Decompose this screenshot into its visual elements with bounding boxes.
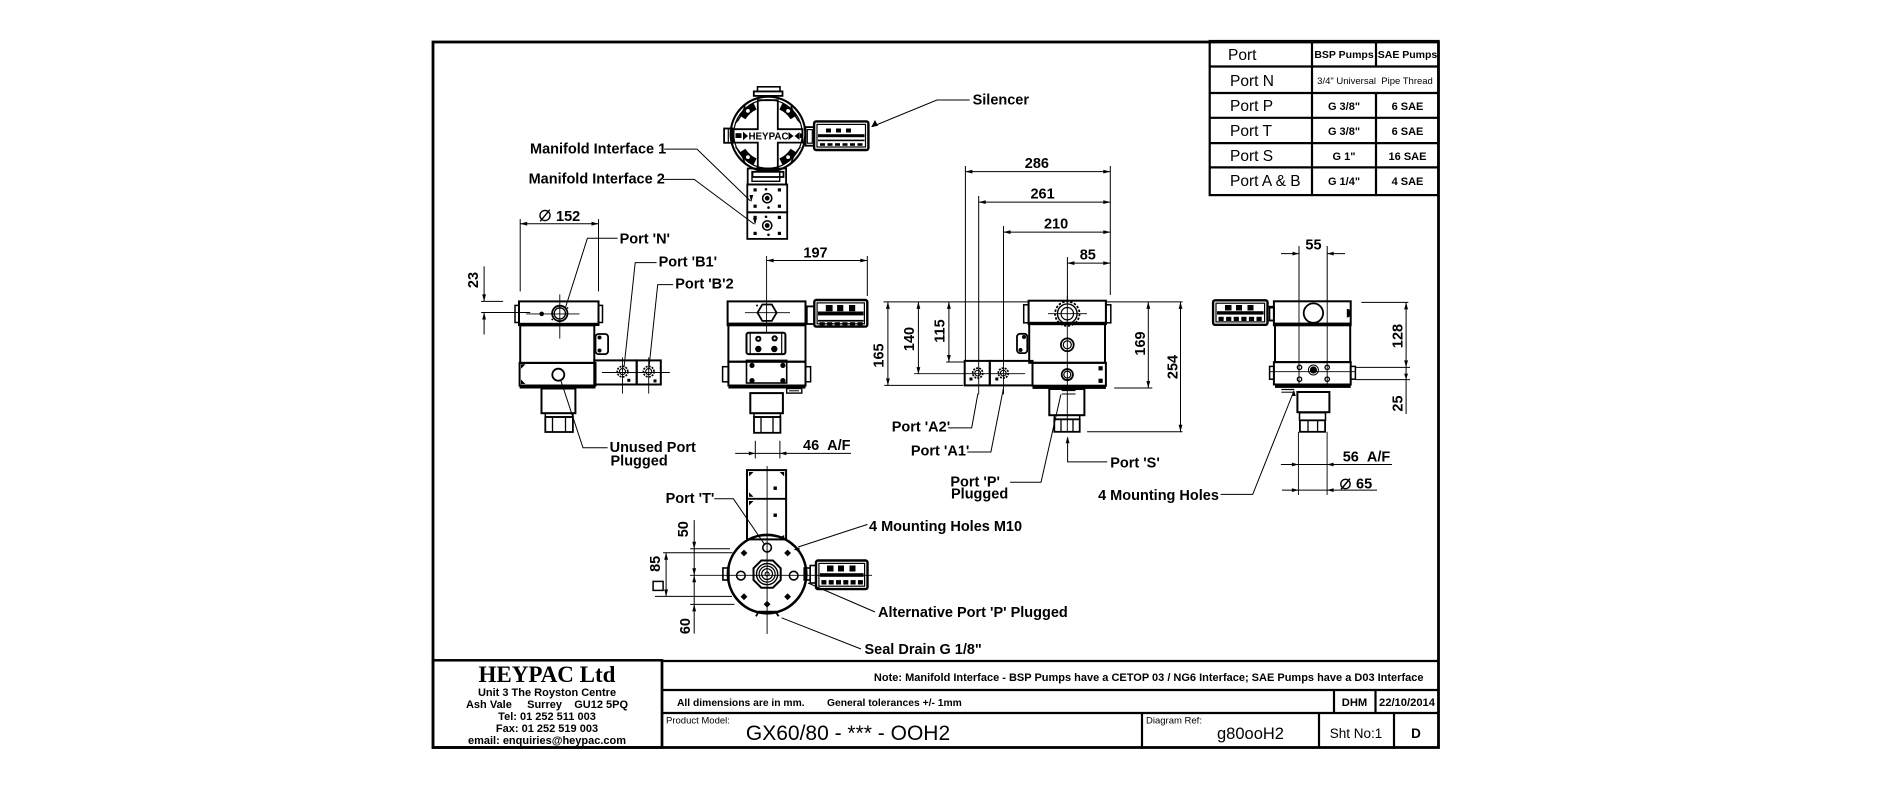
view3 mounting face inner rect with bolts <box>747 360 787 383</box>
svg-text:Plugged: Plugged <box>951 487 1008 503</box>
manifold interface plate 2 <box>747 212 787 239</box>
svg-text:D: D <box>1411 726 1421 741</box>
svg-text:169: 169 <box>1133 331 1149 355</box>
svg-text:6 SAE: 6 SAE <box>1392 101 1424 113</box>
view6 motor circle outline <box>728 535 806 613</box>
svg-text:4 SAE: 4 SAE <box>1392 176 1424 188</box>
svg-text:Port 'A1': Port 'A1' <box>911 444 969 460</box>
label Unused Port Plugged <box>561 380 696 470</box>
view3 bottom pump block <box>723 362 811 389</box>
svg-text:210: 210 <box>1044 217 1068 233</box>
view2 side latch bracket <box>596 334 609 354</box>
svg-text:56 A/F: 56 A/F <box>1343 450 1391 466</box>
drawing sheet border frame <box>433 42 1439 748</box>
view4 port P plug tab dashed <box>1062 391 1076 395</box>
label Port A1 <box>911 389 1003 460</box>
svg-text:DHM: DHM <box>1342 697 1367 709</box>
svg-text:115: 115 <box>933 319 949 342</box>
view4 port A2 block <box>965 361 990 386</box>
dimension 165 <box>872 302 964 386</box>
svg-text:152: 152 <box>556 209 580 225</box>
svg-text:85: 85 <box>648 556 664 572</box>
view3 silencer body <box>814 300 867 327</box>
svg-text:65: 65 <box>1356 477 1372 493</box>
svg-text:3/4" Universal Pipe Thread: 3/4" Universal Pipe Thread <box>1317 76 1433 87</box>
svg-text:22/10/2014: 22/10/2014 <box>1379 697 1436 709</box>
svg-text:Manifold Interface 1: Manifold Interface 1 <box>530 142 666 158</box>
svg-text:254: 254 <box>1165 355 1181 379</box>
svg-text:261: 261 <box>1030 187 1054 203</box>
svg-text:Unit 3 The Royston Centre: Unit 3 The Royston Centre <box>478 687 616 699</box>
view6 silencer side <box>810 561 867 590</box>
svg-text:Port 'B1': Port 'B1' <box>659 255 717 271</box>
svg-text:All dimensions are in mm.: All dimensions are in mm. <box>677 698 805 709</box>
view4 port S plug body <box>1049 389 1084 415</box>
svg-text:Port 'N': Port 'N' <box>620 232 670 248</box>
port A1 fitting <box>914 361 1025 395</box>
view3 main body block <box>728 325 805 362</box>
view6 center port S octagon rings <box>754 561 781 588</box>
svg-text:Port 'B'2: Port 'B'2 <box>675 277 733 293</box>
view4 body plug circle <box>1061 338 1074 351</box>
svg-text:HEYPAC Ltd: HEYPAC Ltd <box>479 662 616 687</box>
svg-text:Port P: Port P <box>1230 98 1273 115</box>
svg-text:g80ooH2: g80ooH2 <box>1217 725 1284 743</box>
dimension 261 <box>979 187 1111 361</box>
view6 left port circle <box>737 571 746 580</box>
top view silencer body <box>814 121 868 150</box>
label 4 Mounting Holes M10 <box>794 519 1023 551</box>
view4 plug neck <box>1054 415 1079 419</box>
view5 main body block <box>1275 325 1350 362</box>
dimension 197 <box>767 245 868 296</box>
extension line top of pump left group <box>883 301 1028 303</box>
svg-text:Port 'T': Port 'T' <box>666 491 715 507</box>
dimension 56 A/F <box>1281 450 1392 467</box>
view5 fill plug circle <box>1304 303 1323 322</box>
dimension 210 <box>1004 217 1111 361</box>
svg-text:HEYPAC: HEYPAC <box>748 132 788 143</box>
top view motor housing outer circle <box>731 97 806 172</box>
svg-text:email: enquiries@heypac.com: email: enquiries@heypac.com <box>468 735 626 747</box>
svg-text:6 SAE: 6 SAE <box>1392 126 1424 138</box>
label Manifold Interface 2 <box>529 172 757 226</box>
dimension 85 square bottom view <box>648 553 733 597</box>
svg-text:Diagram Ref:: Diagram Ref: <box>1146 716 1202 727</box>
view5 port N side mark <box>1347 309 1351 318</box>
view6 port T circle <box>763 543 772 552</box>
view5 flange bolt holes <box>1270 365 1355 381</box>
svg-text:GX60/80 - *** - OOH2: GX60/80 - *** - OOH2 <box>746 722 950 745</box>
view4 bottom pump block <box>1033 363 1106 389</box>
view6 manifold neck rectangle <box>747 470 786 539</box>
svg-text:16 SAE: 16 SAE <box>1389 151 1427 163</box>
port B2 fitting <box>602 357 670 393</box>
svg-text:55: 55 <box>1305 238 1321 254</box>
dimension 85 rear view <box>1067 248 1110 300</box>
view4 plug hex <box>1054 389 1079 432</box>
dimension 60 bottom view <box>678 568 735 634</box>
svg-text:Sht No:1: Sht No:1 <box>1330 726 1383 741</box>
view2 plug hex <box>545 417 573 432</box>
dimension 50 bottom view <box>676 520 730 634</box>
view6 alternative port P circle <box>789 571 798 580</box>
view6 seal drain marker <box>756 601 779 617</box>
top view center band with HEYPAC branding <box>736 132 804 143</box>
table row Port S <box>1230 148 1426 165</box>
view2 port B1 block <box>594 360 636 384</box>
dimension diameter 65 <box>1282 477 1377 493</box>
view4 main body block <box>1029 324 1105 363</box>
top view silencer connector nipple <box>806 127 815 146</box>
table row Port A and B <box>1230 173 1423 190</box>
svg-text:4 Mounting Holes: 4 Mounting Holes <box>1098 488 1219 504</box>
title block tolerances row <box>662 690 1438 713</box>
label 4 Mounting Holes right view <box>1098 390 1296 504</box>
view5 plug hex <box>1300 420 1325 432</box>
view5 silencer connector <box>1268 307 1274 321</box>
manifold interface plate 1 <box>747 185 787 213</box>
view3 manifold interface face plate <box>747 333 786 354</box>
view5 port S plug body <box>1297 392 1329 412</box>
label Silencer <box>871 93 1029 128</box>
svg-text:Port N: Port N <box>1230 73 1274 90</box>
dimension 286 <box>965 156 1110 361</box>
view4 port S circle <box>1062 369 1073 380</box>
port A2 fitting <box>970 368 983 380</box>
view5 mounting flange block <box>1270 362 1356 388</box>
view6 four mounting holes <box>741 550 791 601</box>
svg-text:25: 25 <box>1390 395 1406 411</box>
svg-text:Fax: 01 252 519 003: Fax: 01 252 519 003 <box>496 723 598 735</box>
svg-text:Seal Drain G 1/8": Seal Drain G 1/8" <box>865 642 982 658</box>
view5 top motor block <box>1270 301 1351 325</box>
table row Port N <box>1230 73 1433 90</box>
port B1 fitting <box>617 357 630 393</box>
view4 port N knurled nut <box>1048 296 1087 335</box>
top view top mounting tab <box>754 87 783 96</box>
view4 top motor block <box>1024 301 1111 325</box>
label Port N <box>566 232 671 308</box>
svg-text:Port T: Port T <box>1230 123 1272 140</box>
svg-text:165: 165 <box>872 343 888 367</box>
view2 port N boss <box>526 294 579 338</box>
dimension 169 <box>1106 302 1183 388</box>
top view corner casting wings with bolt holes <box>739 103 796 165</box>
label Port S <box>1066 436 1160 471</box>
svg-text:85: 85 <box>1080 248 1096 264</box>
svg-text:Manifold Interface 2: Manifold Interface 2 <box>529 172 665 188</box>
dimension 115 <box>933 302 965 362</box>
label Manifold Interface 1 <box>530 142 753 203</box>
dimension 23 <box>466 266 530 334</box>
svg-text:Port 'A2': Port 'A2' <box>892 420 950 436</box>
svg-text:Port 'S': Port 'S' <box>1110 456 1160 472</box>
dimension 140 <box>902 302 920 374</box>
view3 port S plug body <box>750 393 783 413</box>
view3 fill plug hex <box>745 256 790 334</box>
svg-text:Product Model:: Product Model: <box>666 716 730 727</box>
top view bottom tab <box>753 172 784 177</box>
svg-text:60: 60 <box>678 618 694 634</box>
view5 vertical centerlines <box>1298 300 1327 495</box>
svg-text:Plugged: Plugged <box>611 454 668 470</box>
label Port B1 <box>624 255 717 368</box>
svg-text:G 3/8": G 3/8" <box>1328 101 1360 113</box>
view2 main body block <box>520 325 594 363</box>
svg-text:140: 140 <box>902 327 918 351</box>
view6 right tab <box>804 568 810 580</box>
view5 plug neck <box>1300 413 1326 421</box>
svg-text:General tolerances +/- 1mm: General tolerances +/- 1mm <box>827 698 962 709</box>
svg-text:286: 286 <box>1025 156 1049 172</box>
top view motor housing inner circle <box>734 100 802 168</box>
table header row: Port / BSP Pumps / SAE Pumps <box>1228 47 1437 64</box>
port specification table top-right <box>1210 41 1439 195</box>
top view cross-shaped casting web <box>734 100 803 170</box>
view4 side latch bracket <box>1017 334 1027 353</box>
view2 port B2 block <box>637 360 661 384</box>
view3 seal drain tab <box>787 389 802 394</box>
svg-text:G 1": G 1" <box>1333 151 1356 163</box>
label Alternative Port P Plugged <box>808 583 1068 621</box>
label Port P Plugged <box>950 394 1061 502</box>
svg-text:197: 197 <box>803 245 827 261</box>
view3 silencer connector <box>807 306 815 324</box>
svg-text:G 3/8": G 3/8" <box>1328 126 1360 138</box>
view3 plug neck <box>754 413 780 417</box>
svg-text:50: 50 <box>676 521 692 537</box>
view5 seal drain tab dashed <box>1281 390 1294 393</box>
view4 vertical centerline <box>1066 334 1068 389</box>
view2 bottom pump block <box>520 363 596 389</box>
view3 top motor block <box>728 301 806 325</box>
view6 left tab <box>723 568 729 580</box>
title block note row <box>662 660 1438 747</box>
label Seal Drain G 1/8 <box>782 618 982 658</box>
top view left port tab <box>724 129 732 143</box>
svg-text:Note: Manifold Interface - BSP: Note: Manifold Interface - BSP Pumps hav… <box>874 672 1424 684</box>
view3 plug hex <box>754 417 780 433</box>
svg-text:Port S: Port S <box>1230 148 1273 165</box>
label Port A2 <box>892 394 978 436</box>
svg-text:46 A/F: 46 A/F <box>803 438 851 454</box>
view2 plug neck <box>545 413 573 417</box>
view5 silencer body side <box>1213 300 1267 325</box>
svg-text:Silencer: Silencer <box>973 93 1030 109</box>
label Port B2 <box>649 277 734 369</box>
dimension 46 A/F <box>735 438 851 458</box>
svg-text:128: 128 <box>1390 324 1406 348</box>
svg-text:4 Mounting Holes M10: 4 Mounting Holes M10 <box>869 519 1022 535</box>
view2 unused port circle <box>552 369 564 381</box>
view6 centerlines <box>690 466 872 634</box>
dimension 128 <box>1356 302 1410 379</box>
dimension diameter 152 <box>520 209 598 292</box>
dimension 254 <box>1087 302 1182 432</box>
label Port T <box>666 491 765 545</box>
svg-text:SAE Pumps: SAE Pumps <box>1378 49 1438 61</box>
svg-text:Alternative Port 'P' Plugged: Alternative Port 'P' Plugged <box>878 605 1068 621</box>
view2 top motor block <box>515 301 603 325</box>
table row Port T <box>1230 123 1423 140</box>
svg-text:BSP Pumps: BSP Pumps <box>1314 49 1373 61</box>
title block product model row <box>666 713 1421 748</box>
svg-text:23: 23 <box>466 272 482 288</box>
svg-text:G 1/4": G 1/4" <box>1328 176 1360 188</box>
svg-text:Port: Port <box>1228 47 1257 64</box>
view4 port A1 block <box>990 361 1033 386</box>
svg-text:Ash Vale Surrey GU12 5P: Ash Vale Surrey GU12 5PQ <box>466 699 628 711</box>
table row Port P <box>1230 98 1423 115</box>
svg-text:Tel: 01 252 511 003: Tel: 01 252 511 003 <box>498 711 596 723</box>
dimension 25 <box>1390 367 1408 414</box>
dimension 55 <box>1281 238 1345 301</box>
svg-text:Port A & B: Port A & B <box>1230 173 1301 190</box>
view2 suction plug body <box>542 389 576 414</box>
title block company box HEYPAC Ltd <box>433 660 662 747</box>
top view manifold neck <box>748 169 786 185</box>
